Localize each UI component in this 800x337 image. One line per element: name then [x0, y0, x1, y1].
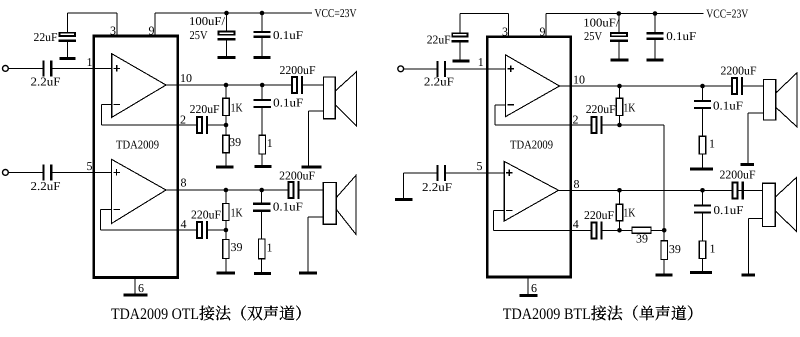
ground below R12: [690, 271, 712, 274]
svg-text:39: 39: [231, 240, 243, 254]
op-amp A4 (right, lower half of U2): [504, 161, 558, 221]
svg-text:39: 39: [669, 242, 681, 256]
capacitor C17 2.2uF (right pin 5): [436, 165, 438, 181]
speaker LS1 (left ch1): [335, 72, 356, 126]
svg-text:6: 6: [531, 281, 537, 295]
wire C11 to speaker LS2: [300, 189, 324, 191]
svg-text:6: 6: [138, 281, 144, 295]
node: rail to C14: [617, 11, 622, 16]
capacitor C2 22uF (pin 3 bootstrap): [66, 13, 68, 32]
capacitor C11 2200uF (left ch2 output): [289, 182, 294, 198]
ground below C13: [452, 59, 469, 62]
svg-text:0.1uF: 0.1uF: [714, 203, 744, 217]
ground below R3: [255, 165, 272, 168]
svg-text:25V: 25V: [190, 28, 208, 42]
node pin10/C18: [700, 84, 705, 89]
node pin10/R7: [617, 84, 622, 89]
wire C6 to node: [208, 229, 226, 231]
resistor R5 39 (left ch2): [225, 230, 227, 239]
svg-text:1K: 1K: [623, 101, 635, 115]
op-amp A1 (left, upper half of U1): [112, 54, 166, 118]
resistor R3 1 (left ch1 zobel): [259, 135, 265, 154]
wire LS3 return to ground: [748, 112, 764, 114]
wire C1 to pin 1 / op-amp A1 +: [52, 67, 111, 69]
wire C5 to node: [208, 124, 226, 126]
capacitor C16 220uF (right upper): [592, 117, 597, 133]
capacitor C22 2200uF (right upper output): [732, 78, 737, 94]
wire C16 to node: [603, 124, 620, 126]
capacitor C20 220uF (right lower): [592, 222, 597, 238]
node pin8/C19: [700, 188, 705, 193]
ground below C14: [610, 59, 628, 62]
capacitor C23 2200uF (right lower output): [733, 182, 738, 198]
svg-text:2200uF: 2200uF: [720, 168, 756, 182]
svg-text:1: 1: [478, 55, 484, 69]
feedback wire A4- to pin 4 (inside U2): [494, 209, 505, 211]
svg-text:TDA2009 BTL: TDA2009 BTL: [503, 306, 591, 323]
wire pin 8 output (left ch2): [166, 189, 288, 191]
resistor R1 1K (left ch1 feedback): [225, 85, 227, 98]
wire pin 10 output (left ch1): [166, 84, 291, 86]
op-amp A3 (right, upper half of U2): [506, 55, 560, 117]
svg-text:0.1uF: 0.1uF: [273, 28, 303, 42]
svg-text:1: 1: [267, 136, 273, 150]
svg-text:VCC=23V: VCC=23V: [706, 6, 748, 20]
wire feedback riser (pin2 node to R9 node): [620, 124, 665, 126]
svg-text:0.1uF: 0.1uF: [273, 199, 303, 213]
svg-text:1: 1: [87, 55, 93, 69]
capacitor C18 0.1uF (right upper zobel): [702, 86, 704, 101]
wire pin 4 (right): [572, 229, 590, 231]
feedback wire A1- to pin 2 (inside U1): [101, 103, 111, 105]
wire pin 10 output (right): [560, 85, 732, 87]
ground below R9: [656, 274, 673, 277]
svg-text:10: 10: [180, 71, 192, 85]
capacitor C9 2200uF (left ch1 output): [292, 77, 297, 93]
capacitor C13 22uF (right bootstrap): [459, 14, 461, 33]
op-amp A2 (left, lower half of U1): [112, 159, 167, 223]
resistor R6 1 (left ch2 zobel): [259, 239, 265, 259]
IC U2 TDA2009 body (right circuit): [487, 37, 571, 277]
wire LS1 return to ground: [309, 110, 324, 112]
pin 6 stub and label (right): [527, 277, 529, 296]
node: rail to C3: [224, 11, 229, 16]
svg-text:1K: 1K: [231, 101, 243, 115]
VCC rail (left): [155, 12, 312, 14]
node R10/R9/riser: [662, 228, 667, 233]
ground below LS4: [742, 274, 756, 277]
feedback wire A2- to pin 4 (inside U1): [101, 208, 112, 210]
svg-text:39: 39: [636, 232, 648, 246]
svg-text:9: 9: [540, 24, 546, 38]
wire pin 8 output (right): [559, 189, 763, 191]
wire pin3 top link: [116, 13, 118, 36]
svg-text:22uF: 22uF: [427, 33, 451, 47]
svg-text:220uF: 220uF: [190, 102, 220, 116]
svg-text:2200uF: 2200uF: [721, 64, 757, 78]
wire C20 to node: [603, 229, 620, 231]
svg-text:2.2uF: 2.2uF: [422, 180, 452, 194]
svg-text:0.1uF: 0.1uF: [273, 96, 303, 110]
svg-text:3: 3: [110, 24, 116, 38]
capacitor C1 2.2uF (left input 1): [42, 60, 44, 76]
wire J3 to C12: [404, 68, 437, 70]
svg-text:220uF: 220uF: [584, 208, 614, 222]
resistor R8 1K (right lower feedback): [619, 190, 621, 204]
node pin2/R7/riser: [617, 123, 622, 128]
svg-text:4: 4: [181, 217, 187, 231]
ground below C3: [218, 56, 236, 59]
svg-text:1: 1: [267, 241, 273, 255]
ground below R2: [216, 166, 233, 169]
ground below LS3: [741, 163, 755, 166]
input terminal J2 (left): [3, 170, 9, 176]
wire C22 to speaker LS3: [743, 85, 763, 87]
capacitor C15 0.1uF (right supply): [654, 14, 656, 34]
pin 9 stub: [154, 13, 156, 36]
pin 5 input network (right): wire: [404, 172, 437, 174]
svg-text:4: 4: [573, 217, 579, 231]
wire pin3 top link (right): [507, 14, 509, 37]
ground below R5: [216, 272, 235, 275]
svg-text:2200uF: 2200uF: [279, 168, 315, 182]
wire C12 to pin 1 / A3 +: [446, 68, 505, 70]
wire pin 2 (left): [179, 124, 196, 126]
resistor R9 39 (vertical, right): [663, 230, 665, 241]
pin 6 stub and label: [134, 278, 136, 296]
svg-text:2.2uF: 2.2uF: [31, 75, 61, 89]
node: rail to C15: [653, 11, 658, 16]
wire J1 to C1: [8, 67, 42, 69]
ground at C17 input: [395, 198, 412, 201]
IC U1 TDA2009 body (left circuit): [94, 36, 178, 278]
svg-text:0.1uF: 0.1uF: [713, 99, 743, 113]
svg-text:2: 2: [180, 113, 186, 127]
ground below LS2: [299, 272, 317, 275]
svg-text:3: 3: [502, 24, 508, 38]
svg-text:0.1uF: 0.1uF: [666, 29, 696, 43]
ground at pin 6: [124, 294, 148, 297]
svg-text:VCC=23V: VCC=23V: [315, 6, 357, 20]
svg-text:2.2uF: 2.2uF: [31, 179, 61, 193]
resistor R7 1K (right upper feedback): [619, 86, 621, 98]
feedback wire A3- to pin 2 (inside U2): [495, 104, 506, 106]
svg-text:1K: 1K: [623, 206, 635, 220]
node pin10/C7: [260, 83, 265, 88]
wire LS2 return to ground: [308, 216, 324, 218]
svg-text:2: 2: [573, 113, 579, 127]
svg-text:22uF: 22uF: [34, 30, 58, 44]
resistor R4 1K (left ch2 feedback): [225, 190, 227, 204]
wire pin 4 (left): [179, 229, 196, 231]
VCC rail (right): [546, 13, 704, 15]
svg-text:8: 8: [574, 177, 580, 191]
wire C17 to pin 5 / A4 +: [446, 172, 504, 174]
svg-text:TDA2009: TDA2009: [510, 138, 553, 152]
ground below C2: [60, 57, 76, 60]
speaker LS4 (right lower): [775, 177, 796, 231]
svg-text:220uF: 220uF: [586, 102, 616, 116]
capacitor C12 2.2uF (right input): [436, 61, 438, 77]
ground at pin 6 (right): [519, 294, 537, 297]
svg-text:25V: 25V: [584, 29, 602, 43]
resistor R11 1 (right upper zobel): [699, 136, 705, 154]
capacitor C6 220uF (left ch2): [197, 222, 202, 238]
ground below C4: [254, 56, 271, 59]
input terminal J3 (right): [398, 66, 404, 72]
svg-text:9: 9: [149, 24, 155, 38]
wire LS4 return to ground: [748, 218, 762, 220]
ground below R6: [254, 272, 271, 275]
wire C9 to speaker LS1: [303, 84, 323, 86]
capacitor C7 0.1uF (left ch1 zobel): [261, 85, 263, 100]
pin 9 stub (right): [545, 14, 547, 37]
node pin4/R4/R5: [224, 228, 229, 233]
capacitor C8 0.1uF (left ch2 zobel): [261, 190, 263, 204]
capacitor C14 100uF/25V (right supply): [618, 14, 620, 33]
node: rail to C4: [260, 11, 265, 16]
capacitor C10 2.2uF (left input 2): [42, 164, 44, 180]
wire C10 to pin 5 / op-amp A2 +: [52, 171, 111, 173]
resistor R12 1 (right lower zobel): [699, 241, 705, 259]
svg-text:39: 39: [229, 135, 241, 149]
capacitor C3 100uF/25V (left supply): [226, 13, 228, 31]
speaker LS3 (right upper): [776, 73, 797, 127]
svg-text:1K: 1K: [231, 206, 243, 220]
svg-text:8: 8: [181, 176, 187, 190]
capacitor C19 0.1uF (right lower zobel): [702, 190, 704, 205]
ground below C15: [647, 59, 664, 62]
capacitor C4 0.1uF (left supply): [261, 13, 263, 32]
input terminal J1 (left): [3, 66, 9, 72]
svg-text:2200uF: 2200uF: [280, 63, 316, 77]
svg-text:TDA2009: TDA2009: [116, 138, 159, 152]
resistor R10 39 (horizontal, right): [620, 229, 632, 231]
svg-text:220uF: 220uF: [191, 208, 221, 222]
ground below R11: [690, 168, 713, 171]
wire J2 to C10: [8, 171, 42, 173]
node pin8/R4: [224, 188, 229, 193]
node pin10/R1: [224, 83, 229, 88]
capacitor C5 220uF (left ch1): [197, 117, 202, 133]
svg-text:10: 10: [573, 73, 585, 87]
svg-text:5: 5: [477, 159, 483, 173]
speaker LS2 (left ch2): [336, 175, 356, 234]
svg-text:TDA2009 OTL: TDA2009 OTL: [111, 306, 199, 323]
wire C23 to speaker LS4: [744, 189, 763, 191]
svg-text:2.2uF: 2.2uF: [424, 75, 454, 89]
node pin2/R1/R2: [224, 123, 229, 128]
ground below LS1: [302, 165, 322, 168]
wire pin 2 (right): [572, 124, 590, 126]
node pin4/R8/R10: [617, 228, 622, 233]
node pin8/C8: [259, 188, 264, 193]
resistor R2 39 (left ch1): [225, 125, 227, 135]
svg-text:1: 1: [709, 136, 715, 150]
svg-text:5: 5: [87, 159, 93, 173]
svg-text:1: 1: [710, 241, 716, 255]
svg-text:100uF/: 100uF/: [189, 14, 226, 28]
svg-text:100uF/: 100uF/: [583, 15, 620, 29]
node pin8/R8: [617, 188, 622, 193]
